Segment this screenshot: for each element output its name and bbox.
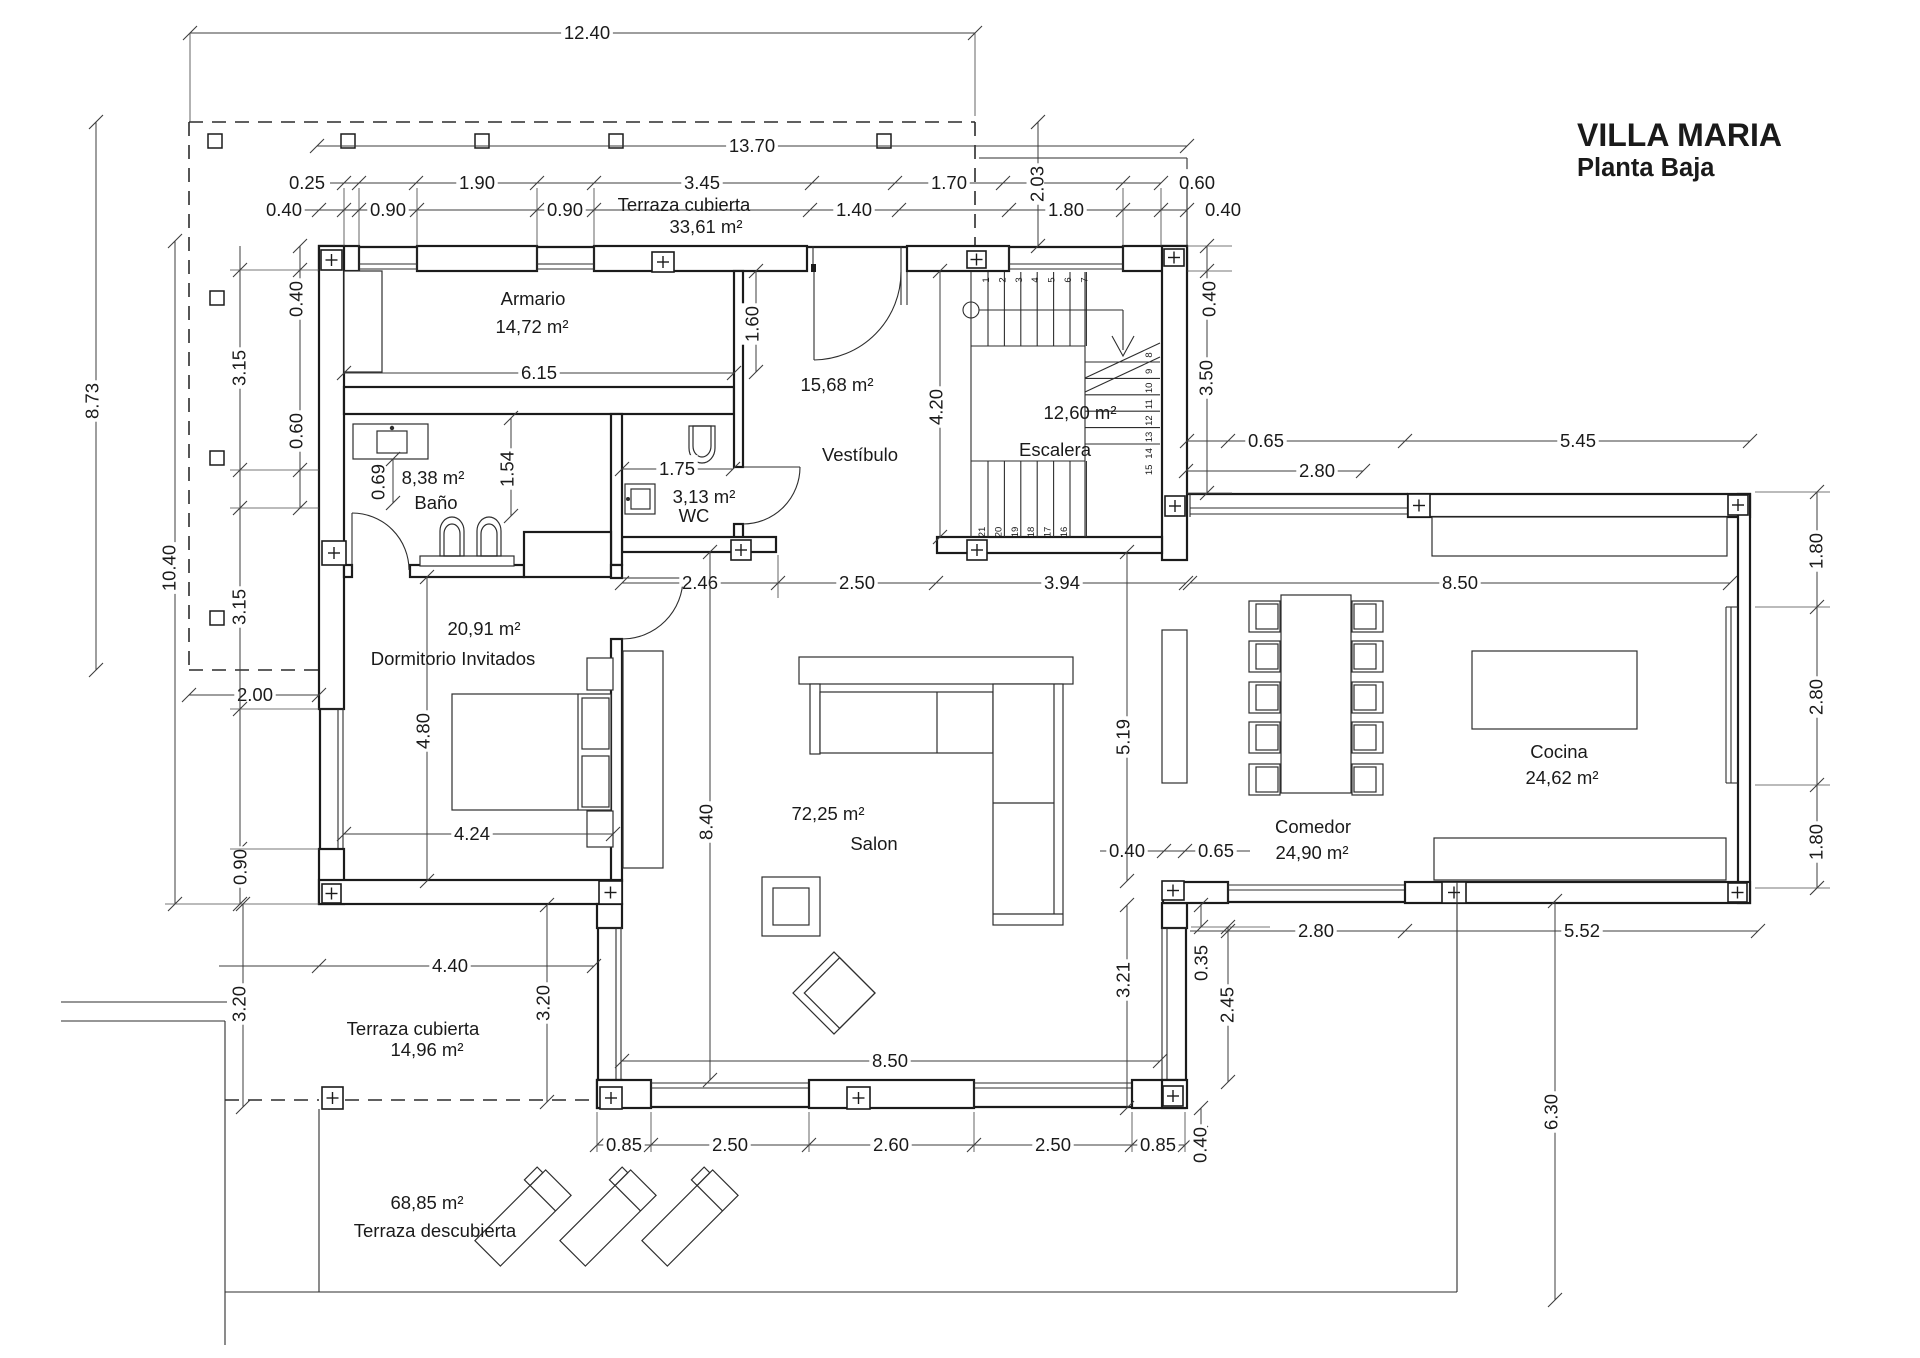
svg-text:Armario: Armario <box>501 288 566 309</box>
kitchen counter top <box>1432 517 1727 556</box>
dimension 8.73 <box>95 122 97 670</box>
sun lounger 1 <box>469 1164 571 1266</box>
column marker kitchen top-right <box>1728 495 1748 515</box>
svg-text:2.03: 2.03 <box>1027 166 1048 202</box>
svg-text:3.45: 3.45 <box>684 172 720 193</box>
dimension 13.70 <box>317 145 1187 147</box>
svg-text:10: 10 <box>1144 383 1155 394</box>
stair treads right flight <box>1085 361 1160 363</box>
window W11 kitchen bottom wall <box>1227 882 1229 903</box>
svg-text:11: 11 <box>1144 399 1155 409</box>
svg-text:0.40: 0.40 <box>266 199 302 220</box>
column marker left wall banyo level <box>322 541 346 565</box>
svg-text:24,90 m²: 24,90 m² <box>1275 842 1348 863</box>
salon sofa chaise <box>993 684 1063 925</box>
dimension 1.75 <box>622 468 733 470</box>
dimension chain 1.80 / 2.80 / 1.80 kitchen right <box>1816 492 1818 888</box>
pergola posts left column <box>210 291 224 305</box>
svg-text:0.65: 0.65 <box>1248 430 1284 451</box>
entrance door side panel lines <box>900 272 902 305</box>
dimension 1.54 <box>510 418 512 516</box>
dormitorio door swing arc <box>622 578 683 639</box>
wc toilet <box>689 426 715 463</box>
dimension 3.20 outer <box>242 904 244 1107</box>
column marker salon bottom-left <box>600 1087 622 1109</box>
svg-text:0.65: 0.65 <box>1198 840 1234 861</box>
svg-text:3.20: 3.20 <box>533 985 554 1021</box>
stair core inner line <box>1084 272 1086 537</box>
svg-text:Vestíbulo: Vestíbulo <box>822 444 898 465</box>
stair landing divider bottom <box>971 460 1085 462</box>
stair enclosure left edge <box>970 272 972 537</box>
svg-text:3,13 m²: 3,13 m² <box>673 486 736 507</box>
wall between vestibulo and armario/wc <box>734 271 743 467</box>
svg-text:8.50: 8.50 <box>1442 572 1478 593</box>
svg-text:2.46: 2.46 <box>682 572 718 593</box>
svg-text:3.50: 3.50 <box>1196 360 1217 396</box>
stair walk line start circle <box>963 302 979 318</box>
svg-text:3.20: 3.20 <box>229 986 250 1022</box>
banyo vanity counter <box>353 424 428 459</box>
dimension 8.40 <box>709 552 711 1080</box>
banyo sink <box>377 431 407 453</box>
extension lines salon bottom windows <box>596 1112 598 1152</box>
svg-text:3.15: 3.15 <box>229 350 250 386</box>
window W7 salon bottom wall <box>973 1080 975 1108</box>
column marker kitchen bottom-left <box>1162 881 1184 900</box>
column marker top-left <box>321 250 342 270</box>
dashed pergola outline right edge <box>974 122 976 248</box>
column marker kitchen top wall middle <box>1408 494 1430 517</box>
svg-text:3.15: 3.15 <box>229 589 250 625</box>
svg-text:16: 16 <box>1059 527 1070 538</box>
window W9 kitchen top wall <box>1189 494 1191 517</box>
wall band below armario <box>344 387 734 414</box>
column marker kitchen bottom-right <box>1728 883 1747 902</box>
svg-text:0.85: 0.85 <box>1140 1134 1176 1155</box>
salon left exterior wall lower segment <box>597 1080 622 1108</box>
kitchen bottom wall segment a <box>1163 882 1228 903</box>
svg-text:4: 4 <box>1030 277 1041 282</box>
svg-text:2.50: 2.50 <box>712 1134 748 1155</box>
dimension 3.21 <box>1126 905 1128 1108</box>
column marker kitchen bottom middle <box>1442 882 1466 903</box>
dormitorio bottom exterior wall <box>319 880 622 904</box>
banyo toilet 1 <box>440 517 464 556</box>
column marker stairs top-left <box>967 251 986 268</box>
svg-text:8: 8 <box>1144 352 1155 357</box>
banyo door leaf <box>351 513 353 570</box>
svg-text:Dormitorio Invitados: Dormitorio Invitados <box>371 648 536 669</box>
banyo door swing arc <box>352 513 409 570</box>
svg-text:Terraza descubierta: Terraza descubierta <box>354 1220 517 1241</box>
property line street corner <box>61 1001 227 1003</box>
left exterior wall lower segment <box>319 849 344 904</box>
svg-text:Terraza cubierta: Terraza cubierta <box>347 1018 480 1039</box>
salon left exterior wall upper segment <box>597 904 622 928</box>
svg-text:1.90: 1.90 <box>459 172 495 193</box>
dimension chain 0.40 / 3.50 right of stairs <box>1206 246 1208 493</box>
dimension chain 0.40 / 0.60 left inner <box>299 246 301 508</box>
svg-text:14,72 m²: 14,72 m² <box>495 316 568 337</box>
window W3 in top wall <box>1008 246 1010 271</box>
svg-text:0.85: 0.85 <box>606 1134 642 1155</box>
pergola posts top row <box>208 134 222 148</box>
svg-text:Escalera: Escalera <box>1019 439 1092 460</box>
svg-text:2.50: 2.50 <box>839 572 875 593</box>
svg-text:15,68 m²: 15,68 m² <box>800 374 873 395</box>
dimension row 0.40 / 0.90 / 0.90 / 1.40 / 1.80 / 0.40 <box>300 209 1187 211</box>
svg-text:20,91 m²: 20,91 m² <box>447 618 520 639</box>
window W6 salon bottom wall <box>650 1080 652 1108</box>
salon right exterior wall upper segment <box>1162 903 1187 928</box>
column marker top-right <box>1164 249 1184 266</box>
extension lines left wall chain <box>230 269 319 271</box>
dimension 4.20 <box>939 271 941 537</box>
dimension 2.45 <box>1227 927 1229 1082</box>
svg-text:8.50: 8.50 <box>872 1050 908 1071</box>
window W8 salon right wall <box>1162 927 1187 929</box>
left exterior wall upper segment <box>319 246 344 709</box>
svg-text:14: 14 <box>1144 448 1155 459</box>
svg-text:0.40: 0.40 <box>1205 199 1241 220</box>
dimension 6.30 <box>1554 901 1556 1300</box>
entrance door opening outer line <box>807 246 907 248</box>
kitchen top wall solid segment <box>1408 494 1750 517</box>
svg-text:12,60 m²: 12,60 m² <box>1043 402 1116 423</box>
dimension 0.40 / 0.65 comedor <box>1100 850 1250 852</box>
svg-text:1.60: 1.60 <box>742 306 763 342</box>
svg-text:1.80: 1.80 <box>1806 824 1827 860</box>
stair treads lower flight <box>987 461 989 537</box>
dimension 4.40 <box>219 965 594 967</box>
svg-text:72,25 m²: 72,25 m² <box>791 803 864 824</box>
dimension 3.20 terraza <box>546 905 548 1102</box>
salon sofa left arm <box>810 684 820 754</box>
svg-text:2.60: 2.60 <box>873 1134 909 1155</box>
svg-text:0.60: 0.60 <box>286 413 307 449</box>
svg-text:0.69: 0.69 <box>368 464 389 500</box>
kitchen right exterior wall <box>1738 494 1750 903</box>
svg-text:2.45: 2.45 <box>1217 987 1238 1023</box>
svg-text:15: 15 <box>1144 465 1155 476</box>
salon sofa back <box>799 657 1073 684</box>
stair walk line <box>979 309 1123 311</box>
svg-text:1.80: 1.80 <box>1048 199 1084 220</box>
bedside table top <box>587 658 613 690</box>
comedor chairs left column <box>1249 601 1280 632</box>
svg-text:10.40: 10.40 <box>159 545 180 591</box>
terraza cubierta dashed boundary <box>225 1099 319 1101</box>
dormitorio bed <box>452 694 611 810</box>
svg-text:24,62 m²: 24,62 m² <box>1525 767 1598 788</box>
dimension 2.80 kitchen top <box>1186 470 1363 472</box>
wc door leaf <box>743 466 800 468</box>
salon sofa seats <box>820 692 993 753</box>
entrance door leaf <box>813 272 815 360</box>
salon bottom wall segment a <box>597 1080 651 1108</box>
column marker right wall kitchen junction <box>1165 496 1185 516</box>
svg-text:4.40: 4.40 <box>432 955 468 976</box>
column marker salon bottom-right <box>1163 1086 1183 1106</box>
kitchen island <box>1472 651 1637 729</box>
comedor chairs right column <box>1352 601 1383 632</box>
wall between banyo and wc <box>611 414 622 565</box>
dimension 0.69 <box>392 459 394 503</box>
svg-text:8,38 m²: 8,38 m² <box>402 467 465 488</box>
wall band below stairs <box>937 537 1162 553</box>
svg-text:6.15: 6.15 <box>521 362 557 383</box>
svg-text:Terraza cubierta: Terraza cubierta <box>618 194 751 215</box>
svg-text:33,61 m²: 33,61 m² <box>669 216 742 237</box>
wall band below wc <box>622 537 776 552</box>
bedside table bottom <box>587 811 613 847</box>
svg-text:8.40: 8.40 <box>696 804 717 840</box>
dimension 5.19 <box>1126 552 1128 881</box>
salon wardrobe against dormitorio wall <box>623 651 663 868</box>
entrance door jambs <box>812 246 814 272</box>
svg-text:2.50: 2.50 <box>1035 1134 1071 1155</box>
svg-text:0.90: 0.90 <box>230 849 251 885</box>
banyo bottom wall with door opening <box>410 565 524 577</box>
svg-text:4.80: 4.80 <box>413 713 434 749</box>
banyo toilet ledge <box>420 556 514 566</box>
svg-text:4.20: 4.20 <box>926 389 947 425</box>
svg-text:12.40: 12.40 <box>564 22 610 43</box>
armario wardrobe <box>344 271 382 372</box>
salon armchair rotated <box>793 952 875 1034</box>
dimension 2.00 <box>189 694 319 696</box>
window W4 in left wall (dormitorio) <box>319 708 344 710</box>
svg-text:2.80: 2.80 <box>1298 920 1334 941</box>
dimension 0.40 salon corner <box>1200 1108 1202 1160</box>
dimension row 0.25 / 1.90 / 3.45 / 1.70 / 0.60 <box>330 182 1161 184</box>
column marker wc wall end <box>731 540 751 560</box>
svg-text:21: 21 <box>977 527 988 538</box>
dimension row 2.46 / 2.50 / 3.94 <box>622 582 1186 584</box>
svg-text:VILLA MARIA: VILLA MARIA <box>1577 117 1782 153</box>
dimension row 0.65 / 5.45 <box>1187 440 1750 442</box>
terraza descubierta edge line <box>318 1109 320 1292</box>
dimension 8.50 kitchen <box>1190 582 1730 584</box>
wc washbasin <box>625 484 655 514</box>
svg-text:3: 3 <box>1014 277 1025 282</box>
svg-text:20: 20 <box>993 527 1004 538</box>
svg-text:6: 6 <box>1063 277 1074 282</box>
dimension 6.15 <box>344 372 734 374</box>
svg-text:0.25: 0.25 <box>289 172 325 193</box>
svg-text:0.60: 0.60 <box>1179 172 1215 193</box>
column marker salon bottom middle <box>847 1087 870 1109</box>
dashed pergola outline top edge <box>189 121 975 123</box>
dimension 12.40 <box>190 32 975 34</box>
salon coffee table / armchair square <box>762 877 820 936</box>
svg-text:0.90: 0.90 <box>547 199 583 220</box>
svg-text:0.40: 0.40 <box>286 281 307 317</box>
svg-text:3.21: 3.21 <box>1113 962 1134 998</box>
svg-text:2.80: 2.80 <box>1299 460 1335 481</box>
svg-text:8.73: 8.73 <box>82 383 103 419</box>
window W5 salon left wall <box>597 927 622 929</box>
bed pillows <box>582 698 609 749</box>
dimension 4.80 <box>426 577 428 881</box>
svg-text:13: 13 <box>1144 432 1155 443</box>
svg-text:68,85 m²: 68,85 m² <box>390 1192 463 1213</box>
salon bottom wall segment b <box>809 1080 974 1108</box>
wall between dormitorio and salon <box>611 639 622 881</box>
kitchen bottom wall segment b <box>1405 882 1750 903</box>
dormitorio door leaf <box>622 577 683 579</box>
svg-text:2.80: 2.80 <box>1806 679 1827 715</box>
column marker dormitorio-salon corner <box>599 881 622 904</box>
sun lounger 2 <box>554 1164 656 1266</box>
stair landing divider top <box>971 345 1085 347</box>
svg-text:14,96 m²: 14,96 m² <box>390 1039 463 1060</box>
svg-text:6.30: 6.30 <box>1541 1094 1562 1130</box>
wc door jamb stub <box>734 524 743 540</box>
column marker below stairs <box>967 540 987 560</box>
salon right exterior wall lower segment <box>1162 1080 1187 1108</box>
svg-text:5: 5 <box>1047 277 1058 282</box>
salon bottom wall segment c <box>1132 1080 1185 1108</box>
window W1 in top wall <box>358 246 360 271</box>
column marker dormitorio bottom-left <box>322 884 341 903</box>
svg-text:1.40: 1.40 <box>836 199 872 220</box>
column marker top wall middle <box>652 252 674 272</box>
dimension row 2.80 / 5.52 <box>1190 930 1758 932</box>
column marker terraza pillar <box>322 1087 343 1109</box>
svg-text:1.80: 1.80 <box>1806 533 1827 569</box>
svg-text:1: 1 <box>981 277 992 282</box>
svg-text:5.52: 5.52 <box>1564 920 1600 941</box>
window W2 in top wall <box>536 246 538 271</box>
dimension 10.40 <box>174 241 176 904</box>
stair break line <box>1085 357 1160 392</box>
sun lounger 3 <box>636 1164 738 1266</box>
svg-text:1.75: 1.75 <box>659 458 695 479</box>
top exterior wall segments <box>319 246 359 271</box>
svg-text:18: 18 <box>1026 527 1037 538</box>
property line right <box>1456 882 1458 1292</box>
svg-text:3.94: 3.94 <box>1044 572 1080 593</box>
svg-text:0.40: 0.40 <box>1199 281 1220 317</box>
banyo toilet 2 <box>477 517 501 556</box>
svg-text:9: 9 <box>1144 369 1155 374</box>
dimension 1.60 <box>755 271 757 372</box>
svg-text:2: 2 <box>997 277 1008 282</box>
svg-text:19: 19 <box>1010 527 1021 538</box>
dashed pergola outline bottom edge <box>189 669 319 671</box>
kitchen top wall outer line over window <box>1187 493 1408 495</box>
dimension row 0.85 / 2.50 / 2.60 / 2.50 / 0.85 <box>597 1144 1185 1146</box>
svg-text:12: 12 <box>1144 415 1155 426</box>
svg-text:0.35: 0.35 <box>1191 945 1212 981</box>
svg-text:7: 7 <box>1079 277 1090 282</box>
svg-text:1.70: 1.70 <box>931 172 967 193</box>
entrance canopy edge line <box>979 157 1187 159</box>
stair treads upper flight <box>987 272 989 346</box>
svg-text:0.90: 0.90 <box>370 199 406 220</box>
property line left <box>224 1021 226 1345</box>
dimension 8.50 salon <box>622 1060 1160 1062</box>
dimension chain 3.15 / 3.15 / 0.90 left <box>239 246 241 904</box>
shower / duct block right of banyo <box>524 532 611 577</box>
svg-text:0.40: 0.40 <box>1190 1127 1211 1163</box>
svg-text:Planta Baja: Planta Baja <box>1577 154 1715 182</box>
svg-text:5.45: 5.45 <box>1560 430 1596 451</box>
svg-text:2.00: 2.00 <box>237 684 273 705</box>
stair walk line arrow <box>1112 336 1134 356</box>
entrance door swing arc <box>814 272 901 360</box>
kitchen counter bottom <box>1434 838 1726 880</box>
svg-text:Baño: Baño <box>414 492 457 513</box>
dimension 0.35 <box>1200 903 1202 927</box>
dimension 4.24 <box>344 833 613 835</box>
window W10 kitchen right wall <box>1726 606 1738 608</box>
svg-text:1.54: 1.54 <box>497 451 518 487</box>
dashed pergola outline left edge <box>188 122 190 670</box>
wall corner piece above dormitorio door <box>611 565 622 578</box>
svg-text:Salon: Salon <box>850 833 897 854</box>
svg-text:Cocina: Cocina <box>1530 741 1588 762</box>
comedor table <box>1281 595 1351 793</box>
svg-text:17: 17 <box>1043 527 1054 538</box>
svg-text:Comedor: Comedor <box>1275 816 1351 837</box>
svg-text:5.19: 5.19 <box>1113 719 1134 755</box>
property line bottom <box>225 1291 1457 1293</box>
right wall of upper block (escalera side) <box>1162 246 1187 560</box>
extension lines top wall chain <box>343 188 345 246</box>
svg-text:WC: WC <box>679 505 710 526</box>
svg-text:4.24: 4.24 <box>454 823 490 844</box>
wc door swing arc <box>743 467 800 524</box>
comedor sideboard <box>1162 630 1187 783</box>
banyo bottom wall left jamb <box>344 565 352 577</box>
svg-text:13.70: 13.70 <box>729 135 775 156</box>
dimension 2.03 <box>1037 122 1039 246</box>
